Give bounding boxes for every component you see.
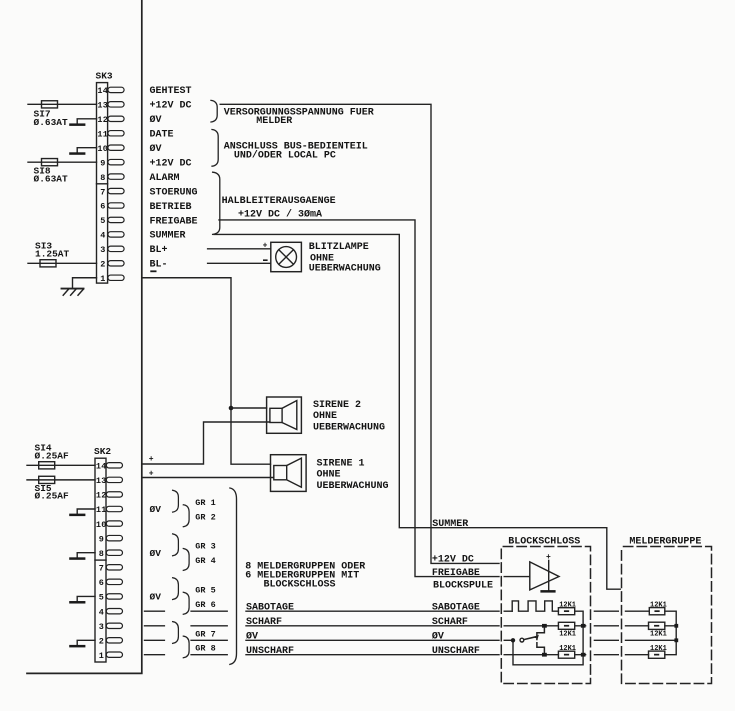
pin 12 (SK2) xyxy=(96,491,123,501)
svg-text:ØV: ØV xyxy=(150,504,162,515)
pin 12 (SK3) xyxy=(97,115,124,125)
svg-text:ØV: ØV xyxy=(432,631,444,643)
fuse SI4 0.25AF xyxy=(27,443,95,469)
pin 14 (SK2) xyxy=(96,462,123,472)
op-amp driver (Blockspule) xyxy=(530,553,559,593)
wire 0V to sirens xyxy=(142,278,271,464)
svg-text:UNSCHARF: UNSCHARF xyxy=(432,646,480,657)
junction square scharf right xyxy=(581,624,586,628)
SK3 signal row labels xyxy=(150,86,198,270)
wire MG right vertical xyxy=(665,611,676,655)
wire stub row pin3 xyxy=(145,625,165,627)
svg-text:BL+: BL+ xyxy=(150,245,168,256)
svg-text:SUMMER: SUMMER xyxy=(432,519,468,530)
svg-text:GR 4: GR 4 xyxy=(195,556,215,566)
svg-text:BL-: BL- xyxy=(150,260,168,271)
wire SUMMER (pin4) to Meldergruppe xyxy=(214,234,620,589)
svg-text:+12V DC / 3ØmA: +12V DC / 3ØmA xyxy=(238,208,322,220)
wire sabotage inside box xyxy=(504,610,512,612)
resistor 12K1 (MG sabotage) xyxy=(649,608,665,615)
wire stub row pin4 xyxy=(145,610,165,612)
svg-text:ALARM: ALARM xyxy=(150,173,180,184)
pin 3 (SK2) xyxy=(99,622,123,632)
svg-text:SIRENE 2: SIRENE 2 xyxy=(313,400,361,411)
svg-text:Ø.63AT: Ø.63AT xyxy=(34,174,69,185)
wire SABOTAGE between boxes xyxy=(594,610,618,612)
annotation Meldergruppen-Hinweis xyxy=(245,561,365,590)
svg-text:GR 7: GR 7 xyxy=(195,629,215,639)
wire SCHARF row xyxy=(246,625,499,627)
pin 10 (SK3) xyxy=(97,144,124,154)
pulse contact symbol (sabotage line) xyxy=(512,601,558,611)
wire segment row pin1 xyxy=(191,654,227,656)
resistor 12K1 (unscharf) xyxy=(558,651,574,658)
svg-text:GR 6: GR 6 xyxy=(195,600,215,610)
svg-text:UND/ODER LOCAL PC: UND/ODER LOCAL PC xyxy=(234,150,336,162)
resistor 12K1 (MG unscharf) xyxy=(649,651,665,658)
svg-text:10: 10 xyxy=(97,144,108,154)
svg-text:ØV: ØV xyxy=(246,631,258,643)
svg-text:FREIGABE: FREIGABE xyxy=(150,216,198,227)
svg-text:GEHTEST: GEHTEST xyxy=(150,86,192,97)
dashed box Meldergruppe xyxy=(622,547,712,684)
pin 1 (SK3) xyxy=(100,274,124,284)
svg-text:7: 7 xyxy=(99,563,104,573)
label Sirene 2 xyxy=(313,400,385,434)
ground pin8 SK2 xyxy=(69,553,95,560)
wire + to sirene2 xyxy=(142,422,270,464)
svg-text:GR 1: GR 1 xyxy=(195,498,215,508)
pin 8 (SK3) xyxy=(100,173,124,183)
svg-text:Ø.25AF: Ø.25AF xyxy=(35,450,70,461)
wire BL- xyxy=(208,262,271,264)
ground pin11 SK2 xyxy=(69,509,95,516)
annotation Versorgungsspannung xyxy=(224,107,374,127)
svg-text:ØV: ØV xyxy=(150,592,162,603)
wire stub row pin2 xyxy=(145,639,165,641)
svg-text:7: 7 xyxy=(100,187,105,197)
resistor 12K1 (sabotage) xyxy=(558,608,574,615)
svg-text:GR 8: GR 8 xyxy=(195,644,215,654)
pin 11 (SK2) xyxy=(96,505,123,515)
svg-text:SIRENE 1: SIRENE 1 xyxy=(317,458,365,469)
pin 5 (SK3) xyxy=(100,216,124,226)
pin 7 (SK2) xyxy=(99,563,123,573)
svg-text:FREIGABE: FREIGABE xyxy=(432,568,480,579)
dashed box Blockschloss xyxy=(501,547,590,684)
svg-text:+12V DC: +12V DC xyxy=(432,555,474,566)
svg-text:MELDER: MELDER xyxy=(256,116,292,127)
svg-text:STOERUNG: STOERUNG xyxy=(150,187,198,198)
svg-text:UEBERWACHUNG: UEBERWACHUNG xyxy=(313,422,385,433)
svg-text:14: 14 xyxy=(97,86,108,96)
junction square MG 0V xyxy=(674,638,678,642)
wire + to sirene1 xyxy=(142,477,274,479)
wire segment row pin2 xyxy=(191,639,227,641)
wire unscharf in Meldergruppe xyxy=(626,654,649,656)
wire SABOTAGE row xyxy=(246,610,499,612)
svg-text:12K1: 12K1 xyxy=(650,601,667,609)
svg-text:SABOTAGE: SABOTAGE xyxy=(246,603,294,614)
pin 6 (SK2) xyxy=(99,578,123,588)
wire scharf inside box xyxy=(504,625,585,627)
wire 0V inside box xyxy=(504,639,511,641)
junction dot sirene2 xyxy=(229,406,234,411)
svg-text:1.25AT: 1.25AT xyxy=(35,248,70,259)
svg-text:SK2: SK2 xyxy=(94,446,111,457)
svg-text:11: 11 xyxy=(96,505,107,515)
ground pin10 xyxy=(69,148,96,155)
pin 2 (SK3) xyxy=(100,260,124,270)
svg-text:1: 1 xyxy=(100,274,105,284)
fuse SI5 0.25AF xyxy=(27,476,95,501)
lamp BLITZLAMPE xyxy=(271,242,302,271)
svg-text:14: 14 xyxy=(96,462,107,472)
svg-text:2: 2 xyxy=(99,637,104,647)
svg-text:BETRIEB: BETRIEB xyxy=(150,202,192,213)
svg-text:Ø.25AF: Ø.25AF xyxy=(35,491,70,502)
svg-text:SCHARF: SCHARF xyxy=(432,617,468,628)
svg-text:6: 6 xyxy=(100,202,105,212)
wire amp input (Freigabe/Blockspule) xyxy=(504,576,530,578)
wire scharf in Meldergruppe xyxy=(626,625,677,627)
wire dot to sirene2 xyxy=(231,407,267,409)
brace GR 5 xyxy=(173,578,179,600)
svg-text:VERSORGUNNGSSPANNUNG FUER: VERSORGUNNGSSPANNUNG FUER xyxy=(224,107,374,118)
svg-text:ØV: ØV xyxy=(150,548,162,559)
svg-text:GR 2: GR 2 xyxy=(195,513,215,523)
pin 4 (SK2) xyxy=(99,607,123,617)
pin 8 (SK2) xyxy=(99,549,123,559)
svg-text:BLOCKSPULE: BLOCKSPULE xyxy=(433,581,493,592)
svg-text:12K1: 12K1 xyxy=(559,602,576,610)
wire 0V in Meldergruppe xyxy=(626,639,677,641)
brace GR 1 xyxy=(173,490,179,512)
svg-text:+12V DC: +12V DC xyxy=(150,101,192,112)
junction square unscharf right xyxy=(581,653,586,657)
label Sirene 1 xyxy=(317,458,389,492)
resistor 12K1 (scharf) xyxy=(558,622,574,629)
wire +12V DC (pin13) to Blockschloss xyxy=(220,104,499,563)
wire FREIGABE (pin5) to Blockschloss xyxy=(219,220,499,577)
resistor 12K1 (MG scharf) xyxy=(649,622,665,629)
svg-text:SK3: SK3 xyxy=(96,71,113,82)
brace GR 2 xyxy=(183,505,189,527)
pin 13 (SK3) xyxy=(97,101,124,111)
pin 9 (SK3) xyxy=(100,158,124,168)
svg-text:SUMMER: SUMMER xyxy=(150,231,186,242)
fuse SI7 0.63AT xyxy=(28,101,97,128)
svg-text:+12V DC: +12V DC xyxy=(150,158,192,169)
speaker SIRENE 1 xyxy=(271,455,307,492)
pin 7 (SK3) xyxy=(100,187,124,197)
annotation Anschluss Bus-Bedienteil xyxy=(224,141,368,161)
brace GR 8 xyxy=(183,636,189,658)
svg-text:13: 13 xyxy=(97,101,108,111)
svg-text:ØV: ØV xyxy=(150,143,162,155)
wire BL+ xyxy=(208,248,271,250)
svg-text:2: 2 xyxy=(100,260,105,270)
fuse SI8 0.63AT xyxy=(28,159,97,185)
svg-text:+: + xyxy=(149,455,154,464)
pin 1 (SK2) xyxy=(99,651,123,661)
svg-text:HALBLEITERAUSGAENGE: HALBLEITERAUSGAENGE xyxy=(222,196,336,207)
label Blitzlampe xyxy=(309,242,381,275)
svg-text:9: 9 xyxy=(100,158,105,168)
wire segment row pin4 xyxy=(191,610,227,612)
svg-text:OHNE: OHNE xyxy=(317,470,341,481)
brace group +12V/0V (Versorgung) xyxy=(211,100,217,122)
svg-text:UNSCHARF: UNSCHARF xyxy=(246,646,294,657)
wire UNSCHARF between boxes xyxy=(594,654,618,656)
wire unscharf inside box xyxy=(504,654,585,656)
svg-text:3: 3 xyxy=(100,245,105,255)
brace GR 6 xyxy=(183,592,189,614)
svg-text:12K1: 12K1 xyxy=(650,631,667,639)
svg-text:12: 12 xyxy=(97,115,108,125)
pin 3 (SK3) xyxy=(100,245,124,255)
pin 2 (SK2) xyxy=(99,637,123,647)
ground pin12 xyxy=(69,119,96,126)
svg-text:OHNE: OHNE xyxy=(313,411,337,422)
fuse SI3 1.25AT xyxy=(28,240,97,267)
svg-text:12K1: 12K1 xyxy=(559,631,576,639)
pin 14 (SK3) xyxy=(97,86,124,96)
svg-text:DATE: DATE xyxy=(150,130,174,141)
pin 11 (SK3) xyxy=(97,129,124,139)
svg-text:10: 10 xyxy=(96,520,107,530)
switch (Blockschloss contact) xyxy=(511,628,545,653)
svg-text:ØV: ØV xyxy=(150,114,162,126)
node 0V dash label pin1 xyxy=(150,270,156,272)
pin 9 (SK2) xyxy=(99,534,123,544)
junction square unscharf left xyxy=(542,653,547,657)
brace GR 7 xyxy=(173,622,179,644)
wire SCHARF between boxes xyxy=(594,625,618,627)
svg-text:4: 4 xyxy=(99,607,104,617)
brace GR 4 xyxy=(183,549,189,571)
wire &#216;V row xyxy=(246,639,499,641)
svg-text:+: + xyxy=(546,553,551,562)
junction square MG scharf xyxy=(674,624,678,628)
svg-text:12K1: 12K1 xyxy=(559,645,576,653)
svg-text:BLOCKSCHLOSS: BLOCKSCHLOSS xyxy=(264,580,336,591)
svg-text:Ø.63AT: Ø.63AT xyxy=(34,117,69,128)
svg-text:UEBERWACHUNG: UEBERWACHUNG xyxy=(317,481,389,492)
ground pin2 SK2 xyxy=(69,640,95,647)
svg-text:12K1: 12K1 xyxy=(650,645,667,653)
svg-text:SCHARF: SCHARF xyxy=(246,617,282,628)
svg-text:6: 6 xyxy=(99,578,104,588)
svg-text:3: 3 xyxy=(99,622,104,632)
speaker SIRENE 2 xyxy=(267,397,302,433)
terminal block SK3 xyxy=(96,71,125,284)
brace all groups (big bracket) xyxy=(230,488,237,664)
svg-text:GR 3: GR 3 xyxy=(195,542,215,552)
pin 10 (SK2) xyxy=(96,520,123,530)
svg-text:UEBERWACHUNG: UEBERWACHUNG xyxy=(309,264,381,275)
ground pin5 SK2 xyxy=(69,596,95,603)
wire main panel vertical bus xyxy=(27,0,142,673)
svg-text:11: 11 xyxy=(97,129,108,139)
wire &#216;V between boxes xyxy=(594,639,618,641)
svg-text:13: 13 xyxy=(96,476,107,486)
chassis ground pin1 SK3 xyxy=(62,278,97,295)
junction square scharf left xyxy=(542,624,547,628)
svg-text:5: 5 xyxy=(99,593,104,603)
terminal block SK2 xyxy=(94,446,123,662)
pin 6 (SK3) xyxy=(100,202,124,212)
brace group DATE/0V/+12V (Bus) xyxy=(212,130,218,167)
svg-text:12: 12 xyxy=(96,491,107,501)
wire sabotage to right vertical xyxy=(513,611,583,665)
svg-text:8: 8 xyxy=(100,173,105,183)
svg-text:BLITZLAMPE: BLITZLAMPE xyxy=(309,242,369,253)
wire UNSCHARF row xyxy=(246,654,499,656)
svg-text:4: 4 xyxy=(100,231,105,241)
svg-text:8: 8 xyxy=(99,549,104,559)
node - (lamp) xyxy=(263,259,268,261)
brace group ALARM..SUMMER xyxy=(213,172,220,234)
svg-text:SABOTAGE: SABOTAGE xyxy=(432,602,480,613)
brace GR 3 xyxy=(173,534,179,556)
svg-text:1: 1 xyxy=(99,651,104,661)
svg-text:+: + xyxy=(263,242,268,251)
wire sabotage in Meldergruppe xyxy=(626,610,650,612)
wire segment row pin3 xyxy=(191,625,227,627)
pin 5 (SK2) xyxy=(99,593,123,603)
wire stub row pin1 xyxy=(145,654,165,656)
svg-text:GR 5: GR 5 xyxy=(195,585,215,595)
pin 4 (SK3) xyxy=(100,231,124,241)
svg-text:5: 5 xyxy=(100,216,105,226)
svg-text:9: 9 xyxy=(99,534,104,544)
pin 13 (SK2) xyxy=(96,476,123,486)
